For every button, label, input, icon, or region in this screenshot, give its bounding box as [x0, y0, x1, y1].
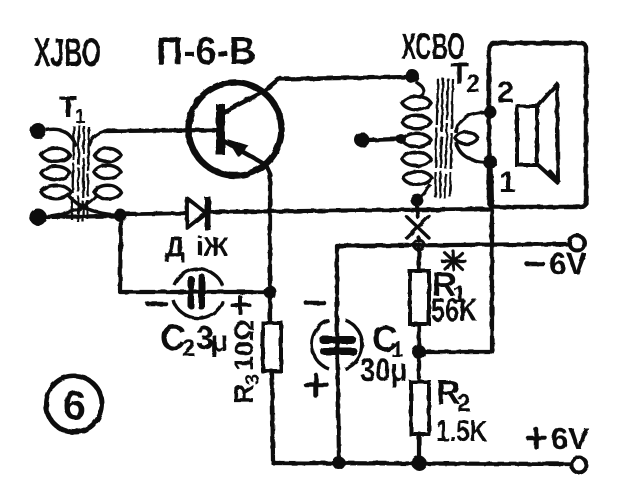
svg-text:6V: 6V	[549, 246, 587, 281]
svg-text:Д: Д	[165, 231, 185, 262]
svg-text:56K: 56K	[431, 292, 477, 328]
svg-text:3: 3	[243, 374, 264, 385]
svg-text:R: R	[228, 384, 259, 404]
svg-text:П-6-В: П-6-В	[156, 30, 256, 73]
svg-text:2: 2	[497, 76, 514, 109]
svg-text:1: 1	[75, 107, 86, 128]
svg-text:2: 2	[466, 70, 480, 98]
svg-text:ХЈВО: ХЈВО	[34, 31, 101, 75]
svg-text:6: 6	[63, 382, 86, 428]
svg-text:2: 2	[457, 390, 470, 417]
svg-text:1.5K: 1.5K	[436, 415, 487, 448]
svg-text:Ж: Ж	[202, 231, 229, 262]
svg-text:30μ: 30μ	[360, 352, 407, 388]
svg-text:μ: μ	[210, 325, 228, 358]
svg-text:10Ω: 10Ω	[229, 319, 259, 371]
svg-text:1: 1	[499, 166, 516, 199]
svg-text:2: 2	[182, 335, 195, 362]
svg-text:6V: 6V	[551, 421, 589, 456]
